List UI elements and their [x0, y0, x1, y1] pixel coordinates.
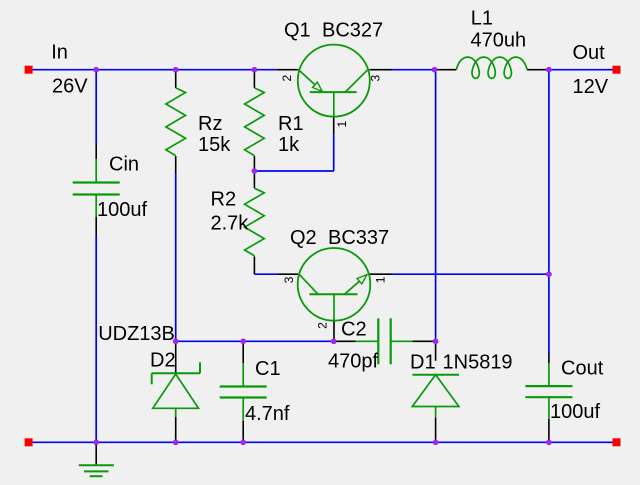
svg-text:Q1: Q1 — [284, 20, 311, 42]
svg-text:2.7k: 2.7k — [211, 213, 250, 235]
svg-text:BC327: BC327 — [322, 20, 383, 42]
svg-text:3: 3 — [282, 276, 296, 283]
svg-text:R2: R2 — [211, 189, 237, 211]
svg-text:4.7nf: 4.7nf — [245, 403, 290, 425]
svg-text:2: 2 — [316, 322, 330, 329]
svg-text:12V: 12V — [573, 76, 609, 98]
svg-text:1N5819: 1N5819 — [443, 352, 513, 374]
svg-text:3: 3 — [369, 75, 383, 82]
svg-text:C1: C1 — [255, 358, 281, 380]
svg-text:2: 2 — [280, 75, 294, 82]
svg-text:C2: C2 — [341, 319, 367, 341]
svg-text:1: 1 — [374, 276, 388, 283]
svg-text:100uf: 100uf — [97, 199, 147, 221]
svg-text:15k: 15k — [198, 134, 231, 156]
svg-text:Out: Out — [573, 42, 606, 64]
svg-text:L1: L1 — [471, 8, 493, 30]
svg-text:1k: 1k — [278, 134, 300, 156]
svg-text:1: 1 — [335, 121, 349, 128]
svg-text:D1: D1 — [410, 352, 436, 374]
svg-text:470pf: 470pf — [328, 351, 378, 373]
svg-text:470uh: 470uh — [471, 30, 527, 52]
svg-text:BC337: BC337 — [328, 227, 389, 249]
svg-text:Q2: Q2 — [290, 227, 317, 249]
svg-text:UDZ13B: UDZ13B — [98, 323, 175, 345]
svg-text:Cout: Cout — [561, 358, 604, 380]
svg-text:Rz: Rz — [198, 113, 222, 135]
svg-text:In: In — [51, 42, 68, 64]
svg-text:R1: R1 — [278, 113, 304, 135]
svg-text:D2: D2 — [150, 350, 176, 372]
svg-text:26V: 26V — [52, 76, 88, 98]
svg-text:100uf: 100uf — [550, 401, 600, 423]
svg-text:Cin: Cin — [109, 154, 139, 176]
